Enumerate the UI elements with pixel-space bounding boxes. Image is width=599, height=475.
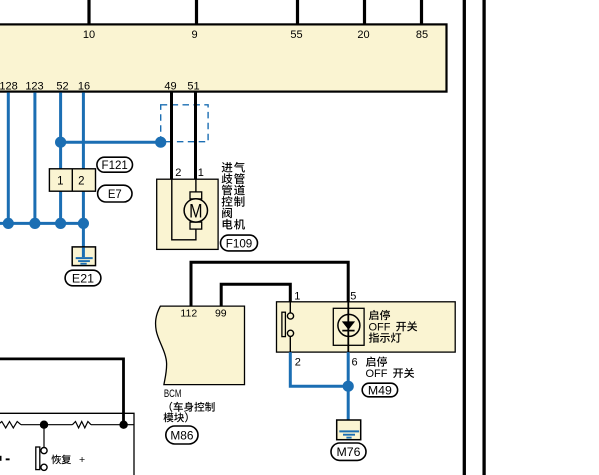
svg-text:2: 2: [175, 167, 181, 179]
svg-text:5: 5: [350, 291, 356, 303]
svg-text:M49: M49: [368, 385, 392, 397]
svg-text:51: 51: [187, 80, 199, 92]
svg-text:6: 6: [352, 356, 358, 368]
svg-text:2: 2: [78, 176, 84, 188]
svg-text:1: 1: [57, 176, 63, 188]
svg-text:16: 16: [78, 80, 90, 92]
svg-text:E21: E21: [72, 273, 94, 285]
svg-text:M: M: [189, 200, 202, 222]
svg-text:M76: M76: [337, 447, 361, 459]
svg-text:2: 2: [295, 356, 301, 368]
svg-text:OFF: OFF: [369, 322, 391, 334]
svg-text:F121: F121: [102, 160, 128, 172]
svg-text:123: 123: [25, 80, 43, 92]
svg-text:+: +: [79, 454, 85, 466]
svg-text:112: 112: [180, 307, 197, 319]
svg-text:20: 20: [357, 29, 369, 41]
svg-text:10: 10: [83, 29, 95, 41]
svg-text:55: 55: [290, 29, 302, 41]
svg-text:52: 52: [56, 80, 68, 92]
svg-text:49: 49: [164, 80, 176, 92]
svg-text:1: 1: [198, 167, 204, 179]
svg-text:E7: E7: [108, 189, 122, 201]
svg-text:9: 9: [191, 29, 197, 41]
svg-text:128: 128: [0, 80, 18, 92]
svg-text:99: 99: [215, 307, 227, 319]
svg-text:1: 1: [294, 291, 300, 303]
svg-text:M86: M86: [170, 430, 193, 442]
svg-text:85: 85: [416, 29, 428, 41]
svg-text:F109: F109: [226, 238, 253, 250]
svg-text:OFF: OFF: [366, 368, 388, 380]
svg-text:BCM: BCM: [164, 388, 182, 400]
